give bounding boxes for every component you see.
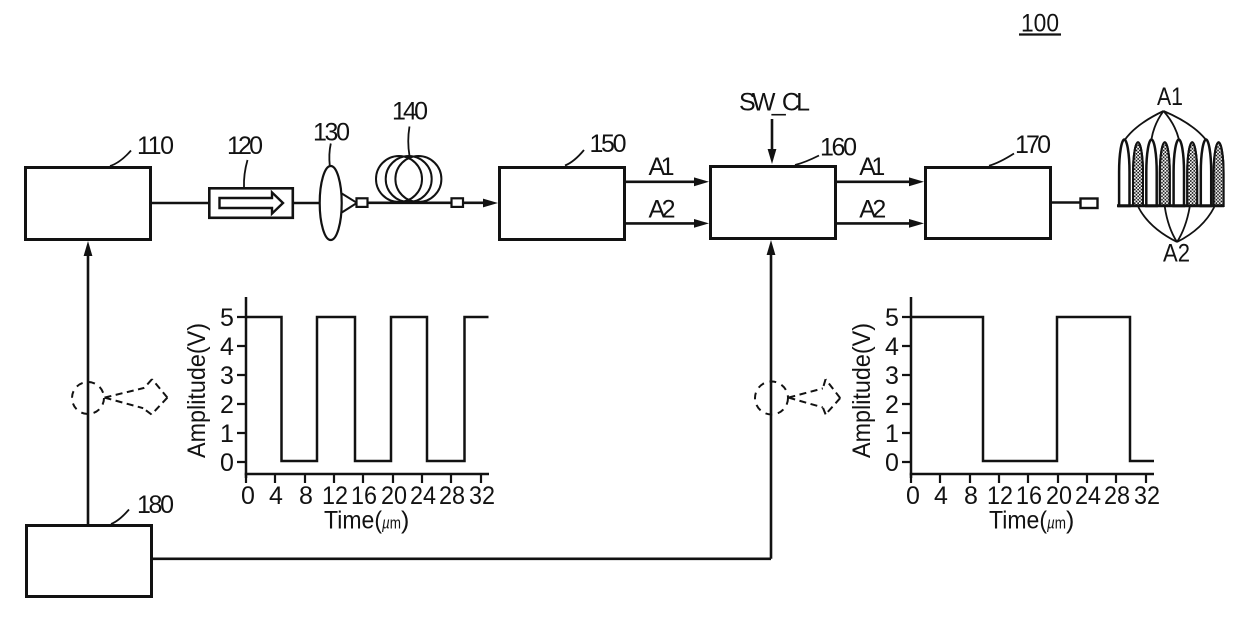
svg-text:Amplitude(V): Amplitude(V) — [848, 323, 876, 458]
svg-text:SW_CL: SW_CL — [739, 89, 810, 117]
svg-text:4: 4 — [269, 482, 283, 510]
svg-text:100: 100 — [1021, 10, 1059, 38]
svg-text:4: 4 — [934, 482, 948, 510]
svg-text:2: 2 — [220, 391, 234, 419]
svg-text:4: 4 — [220, 333, 234, 361]
svg-text:170: 170 — [1015, 131, 1051, 159]
svg-text:32: 32 — [469, 482, 495, 510]
svg-text:32: 32 — [1134, 482, 1160, 510]
svg-text:4: 4 — [885, 333, 899, 361]
svg-text:1: 1 — [885, 420, 899, 448]
svg-text:1: 1 — [220, 420, 234, 448]
svg-text:110: 110 — [137, 132, 174, 160]
svg-text:28: 28 — [439, 482, 465, 510]
svg-text:A1: A1 — [1157, 83, 1183, 111]
svg-text:160: 160 — [820, 134, 857, 162]
svg-text:5: 5 — [885, 304, 899, 332]
svg-text:A2: A2 — [1163, 240, 1190, 268]
svg-text:28: 28 — [1104, 482, 1130, 510]
svg-text:180: 180 — [137, 491, 174, 519]
svg-text:120: 120 — [227, 132, 263, 160]
svg-text:Amplitude(V): Amplitude(V) — [183, 323, 211, 458]
svg-text:130: 130 — [313, 119, 350, 147]
svg-text:0: 0 — [906, 482, 920, 510]
svg-text:A2: A2 — [859, 195, 886, 223]
svg-text:A1: A1 — [649, 153, 675, 181]
svg-text:24: 24 — [1075, 482, 1101, 510]
svg-text:8: 8 — [964, 482, 978, 510]
svg-text:5: 5 — [220, 304, 234, 332]
svg-text:0: 0 — [885, 449, 899, 477]
svg-text:2: 2 — [885, 391, 899, 419]
svg-text:150: 150 — [590, 130, 627, 158]
svg-text:8: 8 — [299, 482, 313, 510]
svg-text:24: 24 — [410, 482, 436, 510]
svg-text:0: 0 — [220, 449, 234, 477]
svg-text:140: 140 — [392, 98, 428, 126]
svg-text:0: 0 — [241, 482, 255, 510]
svg-text:3: 3 — [885, 362, 899, 390]
svg-text:A1: A1 — [859, 153, 885, 181]
svg-text:A2: A2 — [649, 195, 676, 223]
svg-text:3: 3 — [220, 362, 234, 390]
